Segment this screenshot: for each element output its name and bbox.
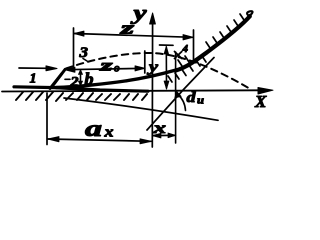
a_x left arrow (48, 137, 60, 142)
angle arc arrowhead (175, 92, 181, 98)
y axis arrowhead (150, 13, 156, 24)
a_x right arrow (140, 139, 152, 144)
label 2 with leader (65, 78, 70, 80)
ramp reinforcement stroke (50, 74, 62, 89)
svg-text:X: X (254, 92, 267, 111)
b dimension double arrow (80, 71, 82, 85)
svg-text:b: b (85, 70, 94, 89)
svg-text:a: a (85, 116, 102, 141)
a_x left extension line (46, 93, 48, 145)
ground band (14, 87, 148, 91)
y axis (151, 16, 153, 147)
svg-text:d: d (187, 90, 197, 106)
line D (lower slope line) (64, 98, 218, 120)
svg-text:z: z (99, 58, 114, 75)
svg-text:o: o (114, 63, 120, 75)
z left extension line (73, 28, 75, 68)
svg-text:x: x (152, 120, 166, 137)
y ordinate dimension (165, 47, 167, 88)
dashed trajectory (3) (66, 53, 251, 90)
inflow arrow 1 (19, 67, 48, 69)
x dim left arrow (152, 133, 161, 138)
curve terminal hook (247, 11, 252, 16)
z right extension tick (193, 30, 195, 61)
z right arrow (183, 35, 193, 41)
x extension line (175, 52, 177, 143)
svg-text:x: x (103, 125, 114, 141)
ground hatching (16, 92, 147, 101)
z0 right extension tick (144, 51, 146, 73)
x dimension line (153, 134, 175, 136)
angle arc alpha_u (178, 95, 186, 111)
z left arrow (74, 31, 84, 36)
svg-text:y: y (146, 60, 158, 76)
curve hatching lower side (168, 56, 206, 82)
X axis (2, 90, 258, 91)
line B (impact tangent) (147, 58, 214, 131)
z0 dimension line (65, 68, 145, 69)
curve hatching upper side (178, 14, 244, 66)
svg-text:2: 2 (69, 75, 78, 90)
svg-text:1: 1 (30, 72, 37, 87)
svg-text:4: 4 (182, 43, 189, 55)
ramp (step 2) (53, 70, 66, 87)
z0 left arrow (65, 67, 76, 72)
svg-text:z: z (119, 19, 135, 38)
curve (thick profile) (56, 16, 250, 88)
X axis arrowhead (258, 88, 273, 95)
z dimension line (75, 34, 193, 38)
curve steep section overlay (177, 17, 251, 71)
z0 right arrow (135, 66, 145, 71)
svg-text:u: u (197, 95, 204, 107)
point 4 cross (175, 52, 182, 59)
a_x dimension line (48, 139, 151, 141)
x dim right arrow (168, 133, 176, 138)
y dim top tick (160, 44, 174, 46)
